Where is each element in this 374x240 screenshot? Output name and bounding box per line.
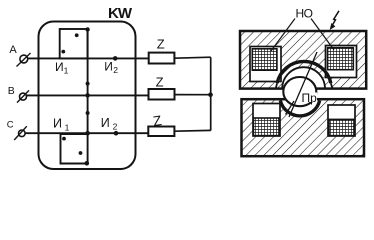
arch left foot [276, 83, 277, 88]
motor housing (rounded rect) [39, 22, 136, 170]
dot mid line upper [86, 82, 90, 86]
svg-text:И: И [104, 60, 113, 74]
pipe (circle) [283, 77, 316, 106]
arch right foot [331, 83, 333, 88]
wire right bus [210, 57, 212, 130]
junction dot B [85, 93, 90, 98]
arrow (flow symbol) [330, 11, 339, 29]
lower right slot outline [328, 105, 355, 136]
dot mid line lower [86, 111, 90, 115]
terminal A [17, 53, 31, 67]
wire Z1 to bus [175, 57, 211, 58]
svg-text:C: C [7, 119, 14, 130]
wire middle vertical [87, 29, 89, 164]
wire Z2 to bus [175, 94, 211, 96]
svg-text:Z: Z [157, 37, 165, 52]
wire phase A [28, 57, 149, 59]
lower core block (hatched) [242, 99, 365, 156]
outer arch arc (thick) [277, 61, 331, 83]
dot node A-I2 [113, 56, 118, 61]
coil upper-right (cross-hatched) [328, 48, 354, 70]
svg-text:И: И [55, 60, 64, 74]
leader line Pr [289, 52, 317, 117]
inner arch arc [282, 67, 325, 88]
winding frame upper [60, 29, 88, 58]
upper core outline [240, 31, 366, 89]
upper right slot outline [326, 46, 357, 78]
upper left slot outline [250, 47, 281, 82]
wire Z3 to bus [175, 129, 211, 132]
dot winding lower corner [85, 161, 90, 166]
dot winding upper corner [85, 27, 89, 31]
dot winding upper a [75, 33, 79, 37]
lower left slot outline [253, 104, 280, 137]
winding frame lower [61, 134, 87, 164]
impedance Z2 [149, 89, 175, 100]
svg-text:И: И [53, 117, 62, 131]
svg-text:2: 2 [113, 121, 118, 131]
notch arc (thick) [280, 101, 319, 116]
dot winding lower a [62, 137, 66, 141]
lower core outline [242, 99, 365, 156]
coil lower-right (cross-hatched) [329, 119, 354, 135]
leader NO left [271, 19, 295, 52]
terminal B [17, 90, 29, 102]
svg-text:НО: НО [296, 7, 314, 21]
dot winding lower b [79, 151, 83, 155]
label Pr halo [302, 93, 317, 103]
terminal C [14, 126, 27, 140]
impedance Z1 [149, 53, 175, 64]
svg-text:Z: Z [156, 75, 164, 90]
svg-text:И: И [101, 116, 110, 130]
dot winding upper b [61, 50, 65, 54]
junction dot bus B [208, 92, 213, 97]
svg-text:2: 2 [113, 65, 118, 75]
coil lower-left (cross-hatched) [253, 118, 279, 136]
leader line Pr short [286, 101, 295, 115]
svg-text:B: B [8, 85, 15, 97]
svg-text:Z: Z [152, 112, 163, 129]
svg-text:1: 1 [64, 66, 69, 76]
dot node C-I2 [114, 131, 119, 136]
coil upper-left (cross-hatched) [252, 49, 277, 70]
wire phase B [27, 94, 149, 96]
svg-text:A: A [9, 44, 17, 56]
impedance Z3 [148, 127, 174, 137]
svg-text:KW: KW [108, 5, 133, 22]
wire phase C [25, 132, 148, 134]
svg-text:1: 1 [65, 123, 70, 133]
svg-text:Пр: Пр [302, 91, 318, 105]
upper core block (hatched) [240, 31, 366, 89]
junction dot C [85, 131, 90, 136]
leader NO right [311, 19, 334, 51]
